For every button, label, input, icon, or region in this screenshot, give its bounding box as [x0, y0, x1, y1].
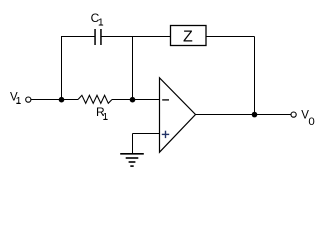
- label V1: [10, 92, 22, 107]
- wire input from V1 terminal to node A: [31, 99, 62, 101]
- node V0 terminal: [291, 112, 296, 117]
- wire Z box to right vertical: [206, 36, 255, 38]
- wire op-amp output to V0 terminal: [196, 114, 292, 116]
- wire mid vertical from top wire down to node B: [132, 37, 134, 100]
- node output junction dot: [252, 112, 258, 118]
- wire resistor to node B: [112, 99, 133, 101]
- svg-text:1: 1: [98, 17, 104, 29]
- op-amp non-inverting input marking: [162, 131, 169, 138]
- svg-text:1: 1: [102, 111, 108, 123]
- node B junction dot: [130, 97, 136, 103]
- ground: [120, 154, 144, 166]
- wire node B to op-amp inverting input: [133, 99, 160, 101]
- impedance Z box: [171, 26, 207, 46]
- node A junction dot: [59, 97, 65, 103]
- svg-text:0: 0: [308, 116, 314, 128]
- wire right vertical down to output node: [254, 37, 256, 115]
- node V1 terminal: [26, 97, 31, 102]
- label C1: [91, 11, 104, 28]
- wire top horizontal left of C1: [61, 36, 95, 38]
- svg-text:1: 1: [16, 95, 22, 107]
- wire ground branch vertical: [132, 134, 134, 154]
- capacitor C1: [95, 29, 101, 45]
- wire top horizontal right of C1 to Z box: [101, 36, 171, 38]
- label R1: [96, 105, 108, 123]
- svg-text:Z: Z: [183, 29, 193, 46]
- wire node A to resistor: [62, 99, 79, 101]
- resistor R1: [78, 95, 112, 103]
- wire left vertical from node A up: [61, 36, 63, 100]
- wire non-inverting input horizontal: [133, 133, 160, 135]
- op-amp U1: [160, 78, 196, 152]
- label V0: [301, 109, 315, 127]
- op-amp inverting input marking: [162, 99, 169, 101]
